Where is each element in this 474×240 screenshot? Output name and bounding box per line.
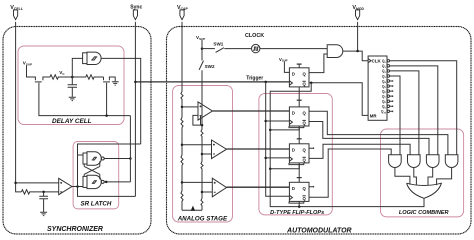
counter output stubs: [387, 60, 393, 113]
switch SW1: [202, 48, 215, 50]
wire AND output to counter CLK: [343, 51, 368, 61]
node cap tap: [42, 191, 45, 194]
resistor R3: [21, 190, 58, 194]
flip-flop FF1: [289, 64, 309, 87]
wire gate2 output: [104, 181, 130, 183]
schmitt trigger U1: [83, 53, 87, 64]
resistor R2: [72, 75, 103, 79]
svg-text:D-TYPE FLIP-FLOPs: D-TYPE FLIP-FLOPs: [270, 210, 324, 216]
svg-text:Trigger: Trigger: [246, 76, 263, 82]
wire VSUP to FF1 D: [284, 62, 289, 73]
comparator A2: [212, 140, 227, 159]
SR latch gate G1: [83, 153, 87, 164]
analog stage box: [173, 86, 233, 223]
pin VMOD: [352, 5, 364, 20]
wire FF4 Qbar to gate A: [309, 149, 391, 197]
node VC: [71, 76, 74, 79]
svg-text:DELAY CELL: DELAY CELL: [52, 118, 92, 125]
gate B output to OR: [414, 168, 417, 185]
FF3 clear bridge: [289, 163, 304, 165]
wire FF2 Q to gate D: [309, 111, 448, 154]
transistor M1 gate bar: [35, 81, 42, 83]
wire rail1 tap to comp2: [182, 144, 212, 146]
wire AND bottom input from Q1: [309, 54, 327, 73]
svg-text:CLOCK: CLOCK: [245, 33, 264, 39]
wire rail1 tap to comp3: [182, 181, 212, 183]
svg-text:D: D: [292, 186, 295, 191]
capacitor C2: [43, 192, 45, 196]
counter Q labels: [381, 59, 387, 114]
wire feedback horizontal: [78, 144, 141, 196]
flip-flop FF4: [289, 163, 309, 202]
AUTOMODULATOR outer dotted box: [167, 27, 472, 235]
wire OR output feedback to FF presets: [270, 83, 424, 207]
wire rail2 tap to comp2: [202, 153, 212, 155]
d-type flip-flops box: [259, 94, 332, 215]
AND gate U3: [327, 45, 343, 58]
svg-text:SW1: SW1: [213, 41, 223, 46]
pin VCELL: [10, 5, 22, 20]
svg-text:MR: MR: [370, 113, 378, 118]
counter U4: [368, 56, 387, 120]
logic combiner box: [381, 129, 464, 217]
transistor M2: [104, 77, 116, 81]
svg-text:D: D: [292, 71, 295, 76]
FF4 clear bridge: [289, 202, 304, 204]
wire comp3 out to FF4 D: [227, 186, 290, 188]
wire gate1 top input stub: [78, 154, 84, 156]
svg-text:D: D: [292, 147, 295, 152]
flip-flop FF2: [289, 87, 309, 126]
ground for M2: [112, 82, 119, 85]
wire rail2 tap to comp3: [202, 191, 212, 193]
svg-text:CLK: CLK: [372, 59, 382, 64]
wire trigger branch FF2: [266, 120, 290, 122]
OR gate U5: [407, 183, 442, 198]
wire counter Q3 to gate A: [390, 76, 400, 155]
wire buffer output to gate2: [72, 186, 83, 188]
svg-text:AUTOMODULATOR: AUTOMODULATOR: [286, 228, 352, 235]
svg-text:D: D: [292, 110, 295, 115]
wire comp2 out to FF3 D: [227, 148, 290, 150]
SR latch box: [73, 142, 119, 209]
wire VSUP stem: [27, 65, 51, 80]
wire FF3 Qbar to gate B: [309, 144, 410, 158]
wire Q1bar to counter MR: [309, 83, 368, 116]
wire FF2 Qbar to gate C: [309, 122, 429, 155]
stub FF4 Q nc: [309, 186, 314, 188]
analog stage ladder rail 1 (VCAP): [181, 22, 183, 210]
wire latch to delay rail: [129, 116, 131, 182]
wire VSUP stem: [201, 40, 203, 49]
pin Sync: [130, 5, 142, 20]
wire trigger rail: [266, 82, 290, 196]
ground for C1: [69, 97, 76, 100]
wire VCELL down left side: [16, 22, 22, 192]
wire trigger branch FF3: [266, 157, 290, 159]
SR latch gate G2: [83, 176, 87, 187]
logic combiner gate B: [408, 155, 421, 168]
wire VC to schmitt input: [72, 58, 82, 77]
pin VCAP: [177, 5, 189, 20]
SYNCHRONIZER outer dotted box: [3, 27, 151, 235]
bottom join with bias arrow: [182, 209, 202, 211]
ground for C2: [40, 212, 47, 215]
analog stage rail 2 (from SW2): [201, 70, 203, 210]
resistor R1: [50, 75, 72, 79]
comp1 feedback loop: [193, 115, 202, 125]
comparator A3: [212, 178, 226, 197]
clock source: [252, 44, 260, 52]
FF2 clear bridge: [289, 126, 304, 128]
wire counter Q2 to gate B: [390, 71, 419, 155]
wire sync vertical: [134, 22, 136, 197]
wire clock to AND: [260, 48, 327, 50]
node VCELL-buffer junction: [14, 182, 17, 185]
wire rail1 tap to comp1: [182, 106, 198, 108]
wire trigger: [135, 81, 289, 83]
delay cell box: [18, 46, 124, 125]
svg-text:SR LATCH: SR LATCH: [80, 201, 111, 208]
gate C output to OR: [428, 168, 433, 186]
gate D output to OR: [437, 168, 452, 186]
wire buffer top input: [16, 182, 59, 184]
svg-text:ANALOG STAGE: ANALOG STAGE: [177, 215, 228, 222]
gate A output to OR: [395, 168, 410, 185]
logic combiner gate C: [426, 155, 439, 168]
capacitor C1: [71, 77, 73, 85]
wire schmitt output: [101, 58, 141, 144]
transistor M1 gate lead + bottom rail: [39, 83, 130, 116]
stub FF3 Q nc: [309, 147, 314, 149]
wire comp1 out to FF2 D: [212, 110, 289, 112]
wire FF4 preset chain to feedback: [298, 201, 300, 206]
logic combiner gate D: [445, 155, 458, 168]
transistor M2 lead to rail: [106, 83, 108, 116]
svg-text:LOGIC COMBINER: LOGIC COMBINER: [399, 210, 449, 216]
flip-flop FF3: [289, 126, 309, 163]
buffer comparator U2: [59, 178, 72, 194]
wire counter Q0 to gate D: [390, 61, 457, 155]
logic combiner gate A: [389, 155, 402, 168]
svg-text:SW2: SW2: [205, 64, 215, 69]
comparator A1: [198, 102, 212, 120]
svg-text:SYNCHRONIZER: SYNCHRONIZER: [47, 226, 103, 233]
wire VMOD down: [357, 22, 359, 51]
switch SW2: [201, 49, 203, 61]
wire counter Q1 to gate C: [390, 66, 438, 155]
cross coupling X: [84, 161, 100, 179]
wire gate1 output: [104, 158, 130, 160]
